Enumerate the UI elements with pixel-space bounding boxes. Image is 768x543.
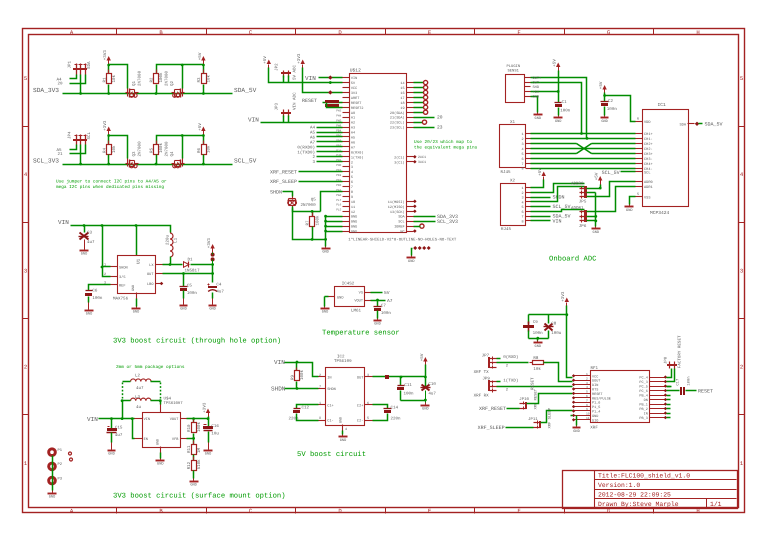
wire OUT+ to ADC CH1- bbox=[531, 78, 587, 139]
svg-text:PB_2: PB_2 bbox=[639, 407, 647, 412]
svg-text:VCC: VCC bbox=[351, 86, 357, 91]
svg-text:100n: 100n bbox=[404, 391, 415, 396]
svg-text:R3: R3 bbox=[197, 77, 202, 83]
transistor Q1 2N7000 bbox=[126, 92, 129, 94]
svg-text:11: 11 bbox=[586, 417, 590, 420]
svg-text:GND: GND bbox=[338, 417, 343, 423]
RF1 left pin stubs bbox=[573, 375, 591, 377]
svg-text:2: 2 bbox=[319, 373, 321, 378]
svg-text:2N7000: 2N7000 bbox=[301, 203, 317, 208]
wire R2 top rail bbox=[157, 65, 204, 74]
ground below RF1 bbox=[576, 426, 578, 427]
svg-text:R9: R9 bbox=[291, 374, 296, 380]
small via pads bbox=[69, 452, 72, 455]
wire gnd rail to ground bbox=[325, 240, 327, 247]
svg-text:PH4: PH4 bbox=[336, 115, 341, 118]
power +3V3 arrow bbox=[107, 56, 111, 61]
svg-text:JP1: JP1 bbox=[68, 60, 73, 68]
connector U$12 shield body bbox=[350, 74, 407, 233]
wire X2 pin2 up-right to ADDR0 bbox=[531, 184, 585, 193]
svg-text:7: 7 bbox=[319, 384, 321, 389]
junction C3 on rail bbox=[83, 224, 86, 227]
svg-text:5: 5 bbox=[367, 416, 369, 421]
wire JP1 pin2 down to net bbox=[80, 75, 82, 94]
frame row ticks left/right bbox=[23, 126, 29, 128]
svg-text:SDA_3V3: SDA_3V3 bbox=[33, 87, 59, 94]
power +3V3 arrow (header) bbox=[301, 60, 305, 65]
svg-text:SDA: SDA bbox=[87, 61, 92, 69]
wire X2 pin1 to +5V bbox=[531, 180, 544, 188]
junction ground rail JP6 bbox=[594, 215, 597, 218]
svg-text:Q5: Q5 bbox=[311, 197, 317, 202]
svg-text:8: 8 bbox=[586, 404, 588, 407]
svg-text:SENS1: SENS1 bbox=[508, 69, 520, 74]
svg-text:PB_4: PB_4 bbox=[639, 394, 647, 399]
svg-text:XRF_RESET: XRF_RESET bbox=[479, 406, 506, 412]
resistor R3 10k bbox=[203, 70, 205, 74]
wire R9 top bbox=[296, 363, 298, 371]
wire pads to ground bbox=[52, 456, 54, 491]
IC1 ADR pins bbox=[636, 181, 643, 183]
junction VFB node bbox=[192, 437, 195, 440]
svg-text:10u: 10u bbox=[211, 432, 219, 437]
wire mount pads to ground bbox=[412, 249, 413, 256]
svg-text:RESET: RESET bbox=[351, 101, 362, 106]
svg-text:2: 2 bbox=[740, 364, 743, 371]
svg-text:DIN: DIN bbox=[592, 383, 598, 388]
wire X2 pin4 up-right bbox=[531, 187, 585, 202]
ground below C10 bbox=[425, 403, 427, 405]
svg-text:JP5: JP5 bbox=[579, 200, 587, 205]
svg-text:PC_3: PC_3 bbox=[639, 380, 647, 385]
svg-text:GND: GND bbox=[190, 483, 196, 488]
svg-text:C5: C5 bbox=[187, 283, 193, 288]
junction gate rail right bbox=[181, 134, 184, 137]
svg-text:7: 7 bbox=[521, 215, 523, 220]
svg-text:2: 2 bbox=[586, 377, 588, 380]
wire gate rail to Q3 gate bbox=[109, 136, 128, 159]
svg-text:GND: GND bbox=[322, 250, 328, 255]
svg-text:2N7000: 2N7000 bbox=[138, 70, 143, 86]
wire gnd rail up to GND pins bbox=[325, 217, 327, 240]
svg-text:P3: P3 bbox=[58, 477, 63, 482]
svg-text:CH2+: CH2+ bbox=[644, 142, 653, 147]
junction C15 bbox=[110, 417, 113, 420]
svg-text:Title:FLC100_shield_v1.0: Title:FLC100_shield_v1.0 bbox=[598, 473, 690, 480]
svg-text:23(SCL): 23(SCL) bbox=[390, 126, 405, 131]
power +3V3 arrow bbox=[107, 127, 111, 132]
IC2 left pin stubs bbox=[319, 376, 326, 378]
svg-text:OUT-: OUT- bbox=[533, 81, 542, 86]
resistor R4 10k bbox=[108, 141, 110, 145]
wire XRF_SLEEP to JP11 bbox=[506, 427, 534, 429]
IC1 SDA pin to SDA_5V bbox=[688, 123, 695, 125]
X2 pin stubs bbox=[526, 187, 531, 189]
svg-text:L1: L1 bbox=[174, 237, 179, 243]
svg-text:JP3: JP3 bbox=[275, 102, 280, 110]
svg-text:1(TX0): 1(TX0) bbox=[351, 155, 364, 160]
wire +3V3 into resistor R1 bbox=[108, 65, 110, 74]
junction R10 top bbox=[192, 417, 195, 420]
power +3V3 arrow (XRF) bbox=[565, 298, 569, 303]
svg-text:2012-08-29 22:09:25: 2012-08-29 22:09:25 bbox=[598, 491, 671, 498]
svg-text:GND: GND bbox=[322, 310, 328, 315]
wire OUT- to ADC CH1+ bbox=[531, 83, 582, 134]
junction EN on rail bbox=[131, 417, 134, 420]
capacitor C8 100u bbox=[548, 315, 550, 324]
svg-text:4: 4 bbox=[345, 427, 347, 432]
svg-text:A7: A7 bbox=[351, 145, 355, 150]
wire rail to U1 top pin bbox=[136, 226, 138, 249]
IC4 GND pin wire to ground bbox=[329, 296, 335, 298]
svg-text:+5V: +5V bbox=[538, 168, 543, 176]
svg-text:A1: A1 bbox=[351, 116, 355, 121]
svg-text:A3: A3 bbox=[351, 126, 355, 131]
wire SDA to label SDA_3V3 bbox=[414, 216, 436, 218]
svg-text:5V: 5V bbox=[384, 290, 390, 296]
ground below U1 bbox=[136, 307, 138, 308]
svg-text:1: 1 bbox=[319, 401, 321, 406]
capacitor C15 4u7 bbox=[111, 419, 113, 429]
junction OUT+ joins bus bbox=[586, 137, 589, 140]
junction +5V rail (sensor) bbox=[557, 90, 560, 93]
svg-text:RESET: RESET bbox=[531, 377, 536, 390]
svg-text:IC1: IC1 bbox=[658, 102, 667, 108]
wire VFB to divider bbox=[187, 438, 194, 440]
transistor Q2 2N7000 (mirrored) bbox=[181, 92, 185, 94]
wire JP4 pin1 to A5 bbox=[70, 145, 77, 150]
svg-text:SHDN: SHDN bbox=[553, 195, 565, 201]
svg-text:SCL_5V: SCL_5V bbox=[602, 170, 620, 176]
no-connect donut row 22 bbox=[414, 122, 424, 124]
wire X2 pin3 SHDN bbox=[531, 197, 551, 199]
junction R6 on net bbox=[202, 163, 205, 166]
power +5V arrow bbox=[201, 127, 205, 132]
wire JP9 pin1 stub 1(TXD) bbox=[497, 381, 501, 383]
svg-text:19: 19 bbox=[400, 106, 404, 111]
svg-text:21: 21 bbox=[58, 152, 64, 157]
svg-text:U$12: U$12 bbox=[350, 67, 361, 73]
svg-text:C14: C14 bbox=[391, 405, 399, 410]
svg-text:OUT: OUT bbox=[147, 272, 154, 277]
svg-text:REF: REF bbox=[119, 284, 125, 289]
pad P$1 bbox=[49, 449, 56, 456]
ground below U$4 bbox=[160, 459, 162, 460]
junction R9 top bbox=[296, 361, 299, 364]
svg-text:6: 6 bbox=[586, 395, 588, 398]
wire U1 pin3 to C6 bbox=[89, 285, 111, 291]
svg-text:10: 10 bbox=[586, 413, 590, 416]
junction U1 pin1 wire bbox=[101, 266, 104, 269]
svg-text:TPS6109: TPS6109 bbox=[334, 359, 352, 364]
svg-text:VIN: VIN bbox=[144, 417, 150, 422]
pin-end pad 3V3 bbox=[328, 90, 332, 94]
title block outline bbox=[563, 471, 738, 509]
connector X1 RJ45 body bbox=[500, 125, 526, 168]
svg-text:5: 5 bbox=[521, 152, 523, 157]
jumper JP9 bbox=[488, 380, 490, 391]
wire JP1 pin3 to 20 bbox=[70, 75, 86, 84]
svg-text:6: 6 bbox=[637, 116, 639, 121]
svg-text:LM61: LM61 bbox=[351, 309, 362, 314]
wire +5V to VDD bbox=[604, 93, 606, 96]
wire gate rail to Q1 gate bbox=[109, 65, 128, 89]
svg-text:11: 11 bbox=[351, 205, 355, 210]
svg-text:PC_4: PC_4 bbox=[639, 376, 647, 381]
svg-text:+5V: +5V bbox=[420, 353, 425, 361]
svg-text:F: F bbox=[517, 508, 520, 515]
jumper JP11 bbox=[539, 421, 541, 428]
power +5V arrow (IC1 VDD) bbox=[602, 85, 606, 90]
svg-text:XRF: XRF bbox=[590, 425, 598, 430]
svg-text:SHDN: SHDN bbox=[270, 189, 282, 195]
power +5V arrow (sensor) bbox=[556, 63, 560, 68]
wire R5 to net bbox=[156, 155, 158, 165]
wire D1 to +3V3 node bbox=[191, 264, 213, 266]
svg-text:A7: A7 bbox=[310, 140, 316, 145]
wire +3V3 to gate rail bbox=[108, 135, 110, 136]
ground below C3 bbox=[84, 249, 86, 250]
svg-text:OUT+: OUT+ bbox=[533, 76, 542, 81]
svg-text:8: 8 bbox=[521, 167, 523, 172]
svg-text:RTS: RTS bbox=[592, 388, 598, 393]
wire R7 bottom to gnd rail bbox=[312, 227, 314, 240]
PLUGIN pin stubs bbox=[525, 77, 531, 79]
svg-text:GND: GND bbox=[626, 208, 632, 213]
svg-text:VCC: VCC bbox=[592, 374, 598, 379]
wire A5 stub to U$12 bbox=[317, 132, 343, 134]
resistor R7 100k bbox=[312, 213, 314, 217]
svg-text:GND: GND bbox=[535, 344, 541, 349]
junction gnd rail R7 bbox=[311, 238, 314, 241]
svg-text:GND: GND bbox=[205, 452, 211, 457]
svg-text:U1: U1 bbox=[137, 258, 142, 264]
U$12 left pin stubs bbox=[343, 77, 350, 79]
solder jumper pads on +3V3 stem bbox=[211, 253, 215, 257]
svg-text:GND: GND bbox=[573, 429, 579, 434]
svg-text:Drawn By:Steve Marple: Drawn By:Steve Marple bbox=[598, 501, 679, 508]
svg-text:VDD: VDD bbox=[644, 120, 650, 125]
svg-text:3: 3 bbox=[521, 142, 523, 147]
wire +3V3 down to XRF VCC bbox=[567, 306, 573, 378]
svg-text:VOUT: VOUT bbox=[170, 417, 179, 422]
svg-text:100n: 100n bbox=[560, 108, 571, 113]
junction C2 tap bbox=[603, 94, 606, 97]
svg-text:VS: VS bbox=[359, 291, 363, 296]
svg-text:CH2-: CH2- bbox=[644, 147, 653, 152]
svg-text:ON: ON bbox=[644, 398, 648, 403]
svg-text:3/5: 3/5 bbox=[119, 275, 125, 280]
svg-text:+3V3: +3V3 bbox=[103, 120, 108, 131]
wire EN loop to rail bbox=[133, 419, 135, 439]
svg-text:the equivalent mega pins: the equivalent mega pins bbox=[414, 144, 478, 150]
svg-text:23: 23 bbox=[437, 124, 443, 130]
junction L vertical bbox=[121, 417, 124, 420]
XRF right pin green tails bbox=[667, 386, 671, 388]
ground below C15 bbox=[111, 449, 113, 450]
svg-text:L2: L2 bbox=[135, 373, 141, 378]
svg-text:mega I2C pins when dedicated p: mega I2C pins when dedicated pins missin… bbox=[56, 184, 164, 190]
svg-text:Onboard ADC: Onboard ADC bbox=[549, 255, 597, 264]
wire JP8 to RF1 rows bbox=[667, 369, 672, 378]
junction JP1 on net bbox=[79, 92, 82, 95]
power +5V arrow (ADDR) bbox=[598, 176, 602, 181]
wire R9 bottom to SHDN bbox=[296, 382, 298, 389]
svg-text:PH0: PH0 bbox=[336, 164, 341, 167]
svg-text:5V boost circuit: 5V boost circuit bbox=[297, 450, 366, 459]
svg-text:JP2: JP2 bbox=[275, 63, 280, 71]
svg-text:20(SDA): 20(SDA) bbox=[390, 111, 405, 116]
svg-text:VIN: VIN bbox=[87, 416, 98, 423]
svg-text:15: 15 bbox=[400, 86, 404, 91]
capacitor C9 100n bbox=[528, 315, 530, 324]
svg-text:SCL: SCL bbox=[644, 171, 650, 176]
svg-text:17: 17 bbox=[400, 96, 404, 101]
svg-text:R7: R7 bbox=[306, 220, 311, 226]
IC IC2 TPS6109 body bbox=[326, 368, 365, 426]
wire rail drop to Q4 gate bbox=[182, 136, 184, 159]
wire OUT row U1 bbox=[163, 273, 213, 275]
bus crossover wires bbox=[577, 144, 592, 154]
svg-text:21(SDA): 21(SDA) bbox=[390, 116, 405, 121]
svg-text:SDA: SDA bbox=[680, 122, 687, 127]
svg-text:Use jumper to connect I2C pins: Use jumper to connect I2C pins to A4/A5 … bbox=[56, 178, 167, 184]
IC1 VSS pin bbox=[636, 196, 643, 198]
svg-text:C3: C3 bbox=[87, 230, 93, 235]
ground below C4 bbox=[212, 303, 214, 305]
dashed wire L2 right leg bbox=[160, 383, 162, 399]
capacitor C1 100n bbox=[555, 102, 562, 104]
capacitor C14 220n flying cap bbox=[373, 405, 388, 409]
svg-text:+5V: +5V bbox=[198, 123, 203, 131]
svg-text:GND: GND bbox=[131, 285, 136, 291]
wire 0(RXD0) stub to U$12 bbox=[317, 146, 343, 148]
svg-text:220n: 220n bbox=[391, 416, 402, 421]
svg-text:X2: X2 bbox=[510, 178, 516, 183]
svg-text:IC2: IC2 bbox=[337, 354, 345, 359]
svg-text:11(MOSI): 11(MOSI) bbox=[388, 200, 405, 205]
wire VIN to U$12 bbox=[319, 77, 343, 79]
svg-text:GND: GND bbox=[133, 310, 139, 315]
wire VIN rail (smd boost) bbox=[99, 418, 135, 420]
svg-text:VIN ADC: VIN ADC bbox=[292, 92, 297, 110]
wire JP4 pin3 to 21 bbox=[70, 145, 86, 154]
IC2 GND bottom pin bbox=[342, 425, 344, 431]
svg-text:9: 9 bbox=[586, 408, 588, 411]
svg-text:C17: C17 bbox=[676, 379, 681, 386]
junction gate rail left bbox=[107, 134, 110, 137]
svg-text:3V3 boost circuit (through hol: 3V3 boost circuit (through hole option) bbox=[113, 337, 281, 346]
svg-text:GND: GND bbox=[408, 259, 414, 264]
svg-text:GND: GND bbox=[351, 230, 357, 235]
svg-text:C4: C4 bbox=[216, 283, 222, 288]
svg-text:+5V: +5V bbox=[198, 52, 203, 60]
wire +5V arrow stem bbox=[558, 71, 560, 103]
mount hole pads header bbox=[413, 246, 417, 250]
svg-text:2: 2 bbox=[24, 364, 27, 371]
svg-text:C16: C16 bbox=[211, 424, 219, 429]
junction R1 on net bbox=[107, 92, 110, 95]
pad P$2 bbox=[49, 463, 56, 470]
ground below IC2 bbox=[342, 435, 344, 437]
IC IC4 temperature sensor body bbox=[335, 287, 365, 307]
svg-text:R6: R6 bbox=[197, 147, 202, 153]
svg-text:A4: A4 bbox=[351, 131, 355, 136]
svg-text:GND: GND bbox=[86, 312, 92, 317]
svg-text:GND: GND bbox=[337, 296, 343, 301]
svg-text:P1: P1 bbox=[58, 448, 63, 453]
wire rail drop to Q2 gate bbox=[182, 65, 184, 89]
svg-text:+3V3: +3V3 bbox=[561, 291, 566, 302]
diode D1 1N5817 bbox=[184, 262, 189, 268]
svg-text:X1: X1 bbox=[510, 120, 516, 125]
svg-text:JP6: JP6 bbox=[579, 224, 587, 229]
wire R3 to net bbox=[203, 85, 205, 94]
ground below sensor bbox=[537, 113, 539, 115]
wire +5V into resistor R3 bbox=[203, 65, 205, 74]
wire LX row bbox=[163, 264, 183, 266]
svg-text:SHDN: SHDN bbox=[119, 266, 128, 271]
svg-text:3: 3 bbox=[740, 267, 743, 274]
junction +5V elbow bbox=[599, 187, 602, 190]
svg-text:SCL: SCL bbox=[398, 220, 404, 225]
svg-text:DOUT: DOUT bbox=[592, 379, 600, 384]
IC U1 MAX756 body bbox=[136, 249, 138, 256]
wire C11 to bottom rail bbox=[400, 391, 402, 401]
svg-text:+5V: +5V bbox=[553, 59, 558, 67]
svg-text:RJ45: RJ45 bbox=[501, 170, 512, 175]
svg-text:GND: GND bbox=[535, 116, 541, 121]
dashed wire L2 left leg bbox=[122, 383, 124, 399]
svg-text:R4: R4 bbox=[102, 147, 107, 153]
svg-text:5: 5 bbox=[521, 205, 523, 210]
svg-text:ARET: ARET bbox=[351, 96, 359, 101]
junction C11 tap bbox=[400, 376, 403, 379]
svg-text:GND: GND bbox=[209, 307, 215, 312]
svg-text:ADR0: ADR0 bbox=[644, 180, 653, 185]
resistor R6 10k bbox=[203, 141, 205, 145]
svg-text:CH1-: CH1- bbox=[644, 137, 653, 142]
svg-text:2N7000: 2N7000 bbox=[138, 141, 143, 157]
wire XRF_SLEEP row bbox=[299, 181, 343, 183]
ground below jumpers bbox=[595, 227, 597, 229]
svg-text:Q3: Q3 bbox=[132, 151, 137, 157]
svg-text:GND: GND bbox=[351, 215, 357, 220]
wire +5V stem bbox=[203, 64, 205, 66]
svg-text:2mm or 5mm package options: 2mm or 5mm package options bbox=[116, 364, 185, 370]
svg-text:VFB: VFB bbox=[172, 437, 179, 442]
no-connect donut IOREF bbox=[420, 224, 424, 228]
wire JP6 pin1 to IC1 ADR1 bbox=[587, 187, 636, 212]
svg-text:P1_6: P1_6 bbox=[592, 401, 600, 406]
svg-text:3V3: 3V3 bbox=[351, 91, 357, 96]
svg-text:8: 8 bbox=[351, 190, 353, 195]
junction R4 on net bbox=[107, 163, 110, 166]
svg-text:PB_3: PB_3 bbox=[639, 416, 647, 421]
svg-text:VIN: VIN bbox=[274, 359, 285, 366]
wire JP7 pin1 stub 0(RXD) bbox=[497, 358, 501, 360]
svg-text:+5V: +5V bbox=[595, 172, 600, 180]
pad P$3 bbox=[49, 477, 56, 484]
jumper JP10 bbox=[525, 402, 527, 409]
svg-text:GND: GND bbox=[49, 495, 55, 500]
svg-text:RJ45: RJ45 bbox=[501, 227, 512, 232]
svg-text:PL5: PL5 bbox=[336, 209, 341, 212]
svg-text:GND: GND bbox=[533, 94, 539, 99]
svg-text:C1+: C1+ bbox=[327, 404, 333, 409]
svg-text:PL7: PL7 bbox=[336, 199, 341, 202]
bottom rail to ground (5V boost) bbox=[401, 400, 426, 402]
